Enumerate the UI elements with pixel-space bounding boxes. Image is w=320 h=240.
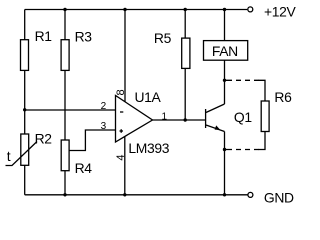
op-amp plus sign	[120, 130, 124, 132]
wire dashed emitter to R6 bottom	[225, 149, 260, 151]
FAN box	[204, 41, 248, 61]
wire R6 bottom corner	[259, 132, 266, 150]
wire FAN bottom to Q1 collector	[224, 60, 226, 104]
svg-text:U1A: U1A	[135, 89, 162, 105]
svg-text:R6: R6	[274, 89, 292, 105]
svg-text:R5: R5	[154, 30, 172, 46]
op-amp U1A triangle	[116, 96, 153, 143]
svg-text:R3: R3	[75, 28, 93, 44]
junction node emitter/R6	[223, 148, 226, 151]
junction node pin4 bottom	[123, 193, 126, 196]
transistor Q1 emitter diagonal	[206, 125, 225, 132]
wire top +12V rail	[25, 9, 248, 11]
junction node pin8 top	[123, 8, 126, 11]
svg-text:1: 1	[162, 112, 168, 123]
wire Q1 emitter down	[224, 132, 226, 195]
junction node R1/R2/pin2	[23, 108, 26, 111]
wire pin4	[124, 136, 126, 194]
resistor R3	[61, 40, 69, 71]
svg-text:R1: R1	[35, 28, 53, 44]
resistor R1	[21, 40, 29, 71]
wire R2 bottom	[24, 165, 26, 195]
junction node collector/R6	[223, 79, 226, 82]
svg-text:4: 4	[115, 155, 127, 161]
wire R3 top	[64, 10, 66, 40]
wire dashed collector to R6 top	[225, 79, 260, 81]
junction node emitter bottom	[223, 193, 226, 196]
junction node R4 bottom	[63, 193, 66, 196]
transistor Q1 base bar	[205, 109, 207, 128]
junction node R5 top	[184, 8, 187, 11]
svg-text:t: t	[7, 148, 11, 164]
junction node FAN top	[223, 8, 226, 11]
wire R4 bottom	[64, 171, 66, 195]
wire R1 bottom to R2 top	[24, 70, 26, 134]
resistor R6	[261, 101, 269, 132]
resistor R5	[182, 38, 190, 68]
transistor Q1 emitter arrow	[215, 125, 221, 130]
svg-text:Q1: Q1	[234, 109, 252, 125]
svg-text:FAN: FAN	[212, 43, 238, 59]
svg-text:R2: R2	[35, 130, 53, 146]
terminal GND	[248, 192, 253, 197]
wire R6 top corner	[259, 80, 266, 101]
wire R5 bottom	[184, 68, 186, 120]
wire node A to pin2	[25, 109, 116, 111]
wire pin8	[124, 10, 126, 102]
wire R1 top	[24, 10, 26, 40]
wire R3 bottom to R4 top	[64, 70, 66, 140]
op-amp minus sign	[120, 111, 123, 113]
junction node R3 top	[63, 8, 66, 11]
wire pin1 output to Q1 base	[153, 119, 206, 121]
resistor R4	[61, 140, 69, 171]
svg-text:2: 2	[101, 101, 107, 112]
terminal +12V	[248, 7, 253, 12]
svg-text:R4: R4	[75, 160, 93, 176]
wire bottom GND rail	[25, 194, 248, 196]
svg-text:LM393: LM393	[128, 140, 169, 156]
svg-text:3: 3	[101, 121, 107, 132]
thermistor R2	[21, 134, 29, 165]
wire FAN top	[224, 10, 226, 41]
svg-text:8: 8	[115, 89, 127, 95]
thermistor R2 diagonal	[6, 142, 38, 166]
transistor Q1 collector diagonal	[206, 104, 225, 113]
junction node R5/base	[184, 118, 187, 121]
svg-text:GND: GND	[264, 190, 294, 206]
wire R5 top	[184, 10, 186, 39]
wire R4 tap to pin3	[69, 130, 116, 151]
svg-text:+12V: +12V	[264, 3, 297, 19]
